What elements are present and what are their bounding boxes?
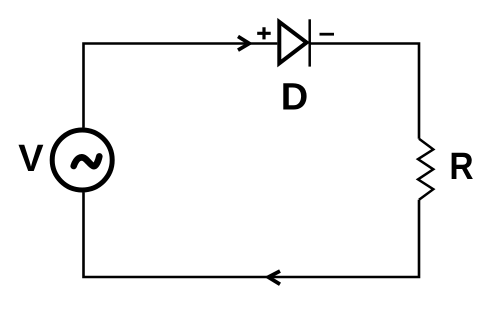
plus label at diode anode [257, 27, 271, 39]
AC voltage source V circle [52, 130, 112, 190]
diode D triangle [279, 22, 306, 63]
diode D cathode bar [308, 19, 311, 66]
current arrow on bottom wire [268, 271, 280, 284]
resistor R zigzag [418, 139, 433, 200]
wire right lower vertical and bottom segment [84, 192, 420, 277]
wire top-left segment with left upper vertical [84, 44, 278, 128]
wire top-right segment and right vertical to resistor [310, 44, 419, 139]
AC source sine symbol [74, 156, 100, 166]
current arrow on top wire [238, 36, 249, 50]
svg-text:V: V [18, 138, 44, 180]
minus label at diode cathode [320, 33, 335, 36]
svg-text:D: D [281, 77, 308, 119]
svg-text:R: R [449, 146, 473, 188]
